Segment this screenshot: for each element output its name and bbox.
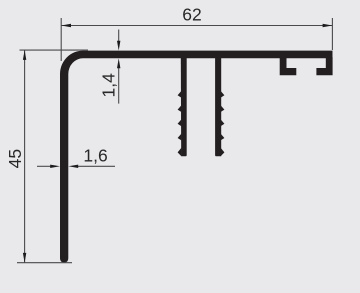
svg-text:1,4: 1,4 (99, 73, 119, 98)
dimension 62: extension line left (60, 18, 62, 61)
dimension 1,4: lower leader with up arrow (118, 66, 120, 104)
serrated rib (left) (181, 57, 187, 156)
svg-text:45: 45 (5, 149, 25, 168)
rib teeth right side (221, 91, 225, 156)
dimension 62: dim line (61, 25, 332, 27)
hook (right end, L-shape foot to left) (316, 57, 332, 75)
dimension 1,4: upper leader with down arrow (118, 30, 120, 45)
rib teeth left side (178, 91, 182, 156)
dimension 45: extension line bottom (17, 262, 72, 264)
serrated rib (right) (215, 57, 221, 156)
svg-text:62: 62 (182, 5, 201, 25)
dimension 1,6: left leader with right arrow (37, 165, 52, 167)
dimension 45: extension line top (20, 49, 89, 51)
dimension 62: arrow left (61, 24, 71, 27)
dimension 45: arrow top (23, 50, 26, 60)
dimension 45: dim line (24, 50, 26, 263)
hook (middle, L-shape foot to right) (280, 57, 297, 75)
dimension 62: arrow right (323, 24, 333, 27)
dimension 1,6: right leader with left arrow (76, 165, 115, 167)
dimension 45: arrow bottom (23, 253, 26, 263)
svg-text:1,6: 1,6 (83, 146, 107, 166)
aluminium profile main L-body (60, 51, 333, 263)
dimension 62: extension line right (331, 18, 333, 50)
